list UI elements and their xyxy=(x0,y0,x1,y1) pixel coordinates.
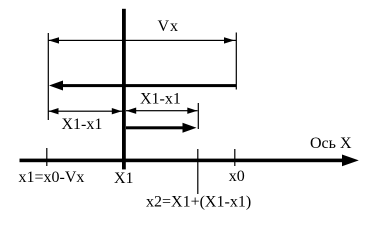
left extension line at x1 xyxy=(48,33,49,120)
-Vx vector arrowhead xyxy=(49,81,63,91)
x1 tick mark xyxy=(46,148,47,166)
svg-text:Ось X: Ось X xyxy=(310,135,352,152)
x0 tick mark xyxy=(234,149,235,166)
svg-text:X1-x1: X1-x1 xyxy=(62,116,103,133)
svg-text:X1: X1 xyxy=(114,170,134,187)
axis line Ось X xyxy=(20,159,344,163)
left X1-x1 left arrowhead xyxy=(49,108,59,114)
Vx dimension line xyxy=(48,40,236,41)
Vx right arrowhead xyxy=(224,37,235,43)
extension line at x2 xyxy=(198,103,199,129)
right X1-x1 left arrowhead xyxy=(126,108,136,114)
right extension line at x0 xyxy=(236,33,237,90)
axis arrowhead xyxy=(342,155,359,167)
+(X1-x1) vector line (thick, pointing right) xyxy=(126,126,184,129)
x2 leader line xyxy=(197,149,198,194)
svg-text:x1=x0-Vx: x1=x0-Vx xyxy=(19,169,85,186)
Vx left arrowhead xyxy=(49,37,60,43)
left X1-x1 dimension line xyxy=(48,111,122,112)
svg-text:X1-x1: X1-x1 xyxy=(140,91,181,108)
X1 vertical reference line xyxy=(122,9,126,170)
right X1-x1 right arrowhead xyxy=(187,108,197,114)
left X1-x1 right arrowhead xyxy=(112,108,122,114)
svg-text:Vx: Vx xyxy=(158,18,179,35)
+(X1-x1) vector arrowhead xyxy=(183,123,197,133)
right X1-x1 dimension line xyxy=(126,110,198,111)
svg-text:x2=X1+(X1-x1): x2=X1+(X1-x1) xyxy=(146,194,251,211)
svg-text:x0: x0 xyxy=(229,168,245,185)
-Vx vector line (thick, pointing left) xyxy=(60,84,236,87)
